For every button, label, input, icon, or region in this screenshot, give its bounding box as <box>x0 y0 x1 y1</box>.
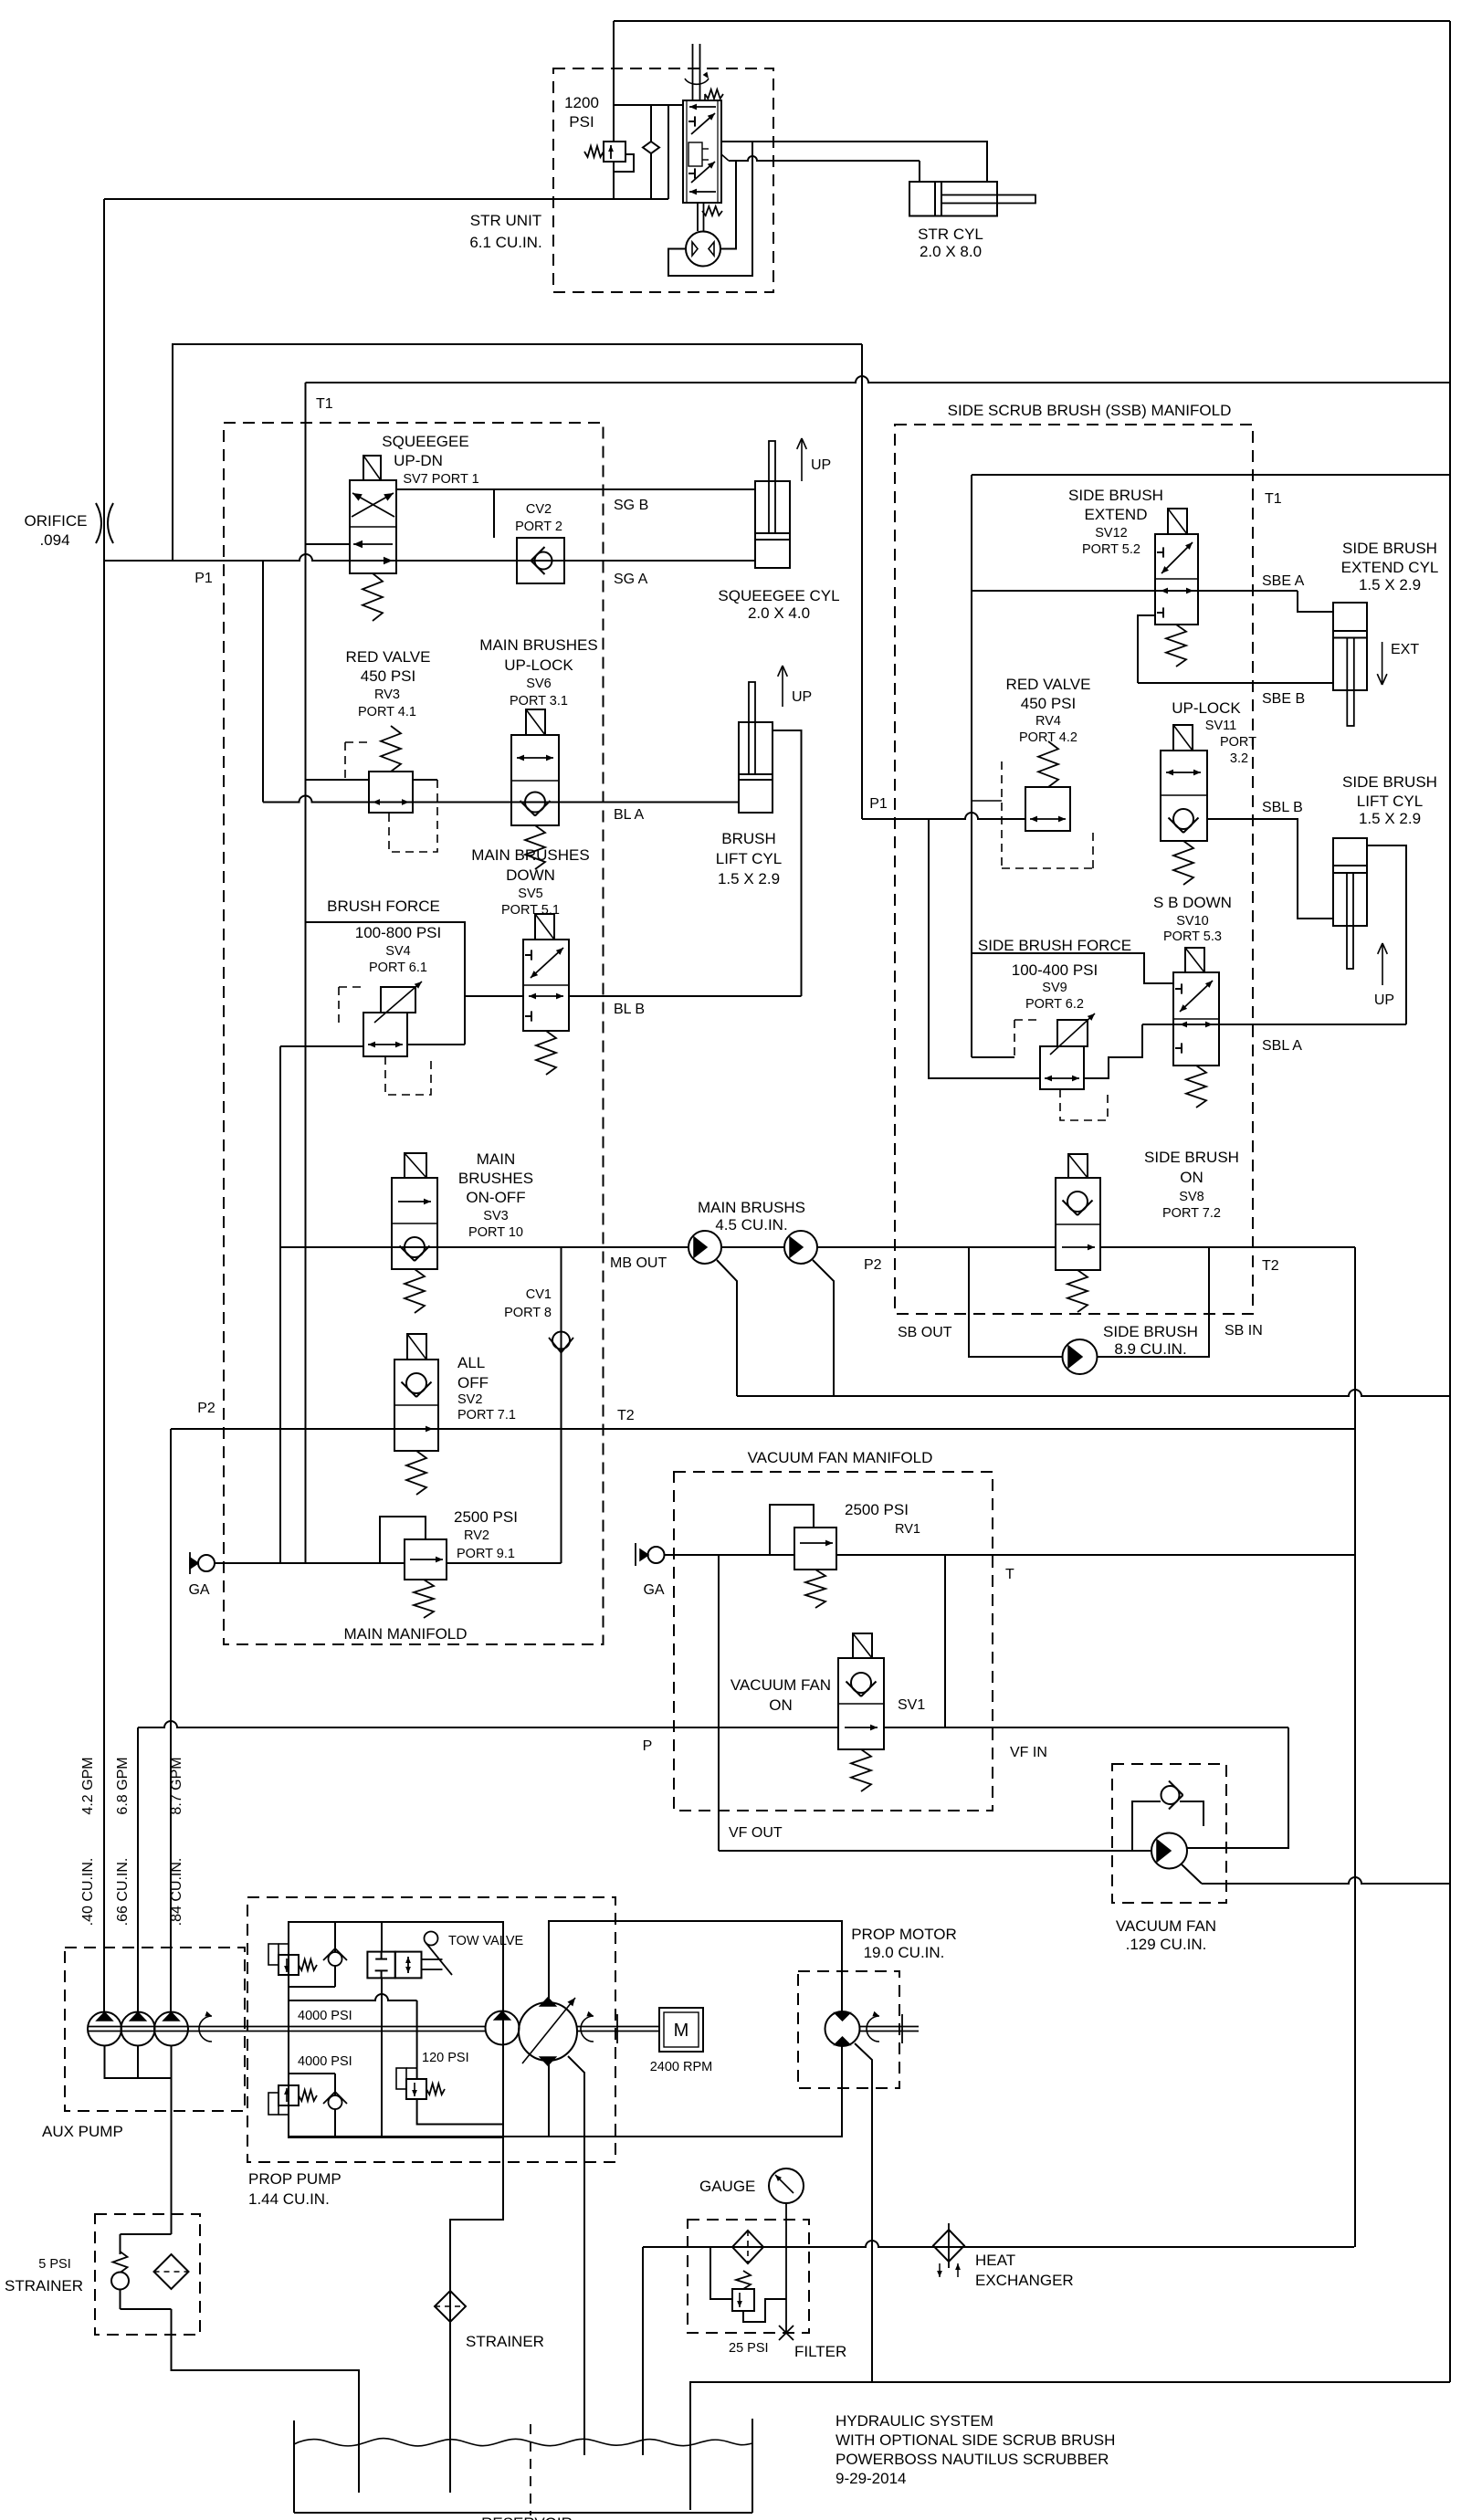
svg-text:PORT 5.2: PORT 5.2 <box>1082 542 1140 557</box>
svg-text:VF IN: VF IN <box>1010 1745 1047 1760</box>
side brush extend cylinder <box>1333 603 1367 690</box>
spring SV12 <box>1166 625 1186 667</box>
STR unit dashed enclosure <box>553 68 773 292</box>
svg-text:SBL A: SBL A <box>1262 1038 1302 1054</box>
side brush motor 8.9 cu.in. <box>1063 1339 1098 1374</box>
svg-text:PORT 9.1: PORT 9.1 <box>457 1547 515 1561</box>
wire STR line B to cylinder cap end <box>729 156 920 161</box>
wire tank return bottom to reservoir <box>690 2382 1450 2510</box>
svg-text:LIFT CYL: LIFT CYL <box>1357 793 1423 810</box>
proportional solenoid SV9 <box>1057 1020 1088 1046</box>
svg-text:SIDE BRUSH: SIDE BRUSH <box>1144 1149 1239 1166</box>
svg-text:ON-OFF: ON-OFF <box>466 1189 525 1206</box>
svg-text:EXTEND CYL: EXTEND CYL <box>1341 559 1439 576</box>
wire return line through filter and HX <box>643 2241 1354 2247</box>
svg-text:SV2: SV2 <box>457 1392 482 1407</box>
svg-text:SV10: SV10 <box>1176 914 1208 929</box>
wire SV7 B port to T1 <box>306 543 351 545</box>
svg-text:GAUGE: GAUGE <box>699 2178 755 2195</box>
svg-text:AUX PUMP: AUX PUMP <box>42 2123 123 2140</box>
vacuum fan dashed enclosure <box>1112 1764 1226 1903</box>
SSB manifold dashed enclosure <box>895 425 1253 1314</box>
charge pump <box>486 2011 520 2045</box>
gauge port GA main manifold <box>189 1552 191 1574</box>
solenoid SV2 <box>407 1334 426 1360</box>
svg-text:19.0 CU.IN.: 19.0 CU.IN. <box>864 1944 945 1961</box>
svg-text:POWERBOSS NAUTILUS SCRUBBER: POWERBOSS NAUTILUS SCRUBBER <box>836 2451 1109 2468</box>
check valve fan bypass <box>1161 1786 1180 1804</box>
svg-text:SIDE BRUSH: SIDE BRUSH <box>1068 487 1163 504</box>
relief 4000 psi bottom <box>279 2085 299 2105</box>
wire 120psi out <box>417 2099 503 2125</box>
spring RV2 <box>414 1580 434 1618</box>
svg-text:UP-DN: UP-DN <box>394 452 443 469</box>
svg-text:3.2: 3.2 <box>1230 751 1248 766</box>
svg-text:WITH OPTIONAL SIDE SCRUB BRUSH: WITH OPTIONAL SIDE SCRUB BRUSH <box>836 2431 1115 2449</box>
reservoir fluid level wavy line <box>294 2439 752 2446</box>
wire T2 return vertical right <box>1354 1247 1356 2247</box>
svg-text:RV1: RV1 <box>895 1522 920 1537</box>
wire gerotor to line B <box>720 161 736 249</box>
svg-text:PORT 6.1: PORT 6.1 <box>369 961 427 975</box>
wire pump suction <box>450 2121 503 2493</box>
svg-text:RED VALVE: RED VALVE <box>346 648 431 666</box>
plug X at gauge line <box>779 2326 794 2340</box>
wire P1 vertical to SSB <box>861 344 863 819</box>
valve SV10 side brush down <box>1173 972 1219 1066</box>
relief valve 1200 PSI <box>604 142 625 162</box>
pilot dash SV4 left <box>339 987 363 1024</box>
svg-text:SV5: SV5 <box>518 887 542 901</box>
svg-text:DOWN: DOWN <box>506 866 555 884</box>
wire RV3 top feed from T1 <box>306 779 370 781</box>
spring SV11 <box>1173 841 1193 885</box>
wire SBE A to extend cyl <box>1298 591 1333 612</box>
svg-text:EXCHANGER: EXCHANGER <box>975 2272 1074 2289</box>
squeegee cylinder 2.0x4.0 <box>755 481 790 568</box>
wire filter outlet to tank <box>642 2247 644 2455</box>
svg-text:SBE B: SBE B <box>1262 691 1305 707</box>
prop pump inner box <box>289 1922 503 2137</box>
wire MB OUT main line <box>280 1246 688 1248</box>
svg-text:PROP PUMP: PROP PUMP <box>248 2170 342 2188</box>
pilot dash RV3 left <box>345 742 369 779</box>
svg-text:EXT: EXT <box>1391 642 1419 657</box>
wire SV4 left port <box>280 1045 363 1047</box>
solenoid SV10 <box>1185 948 1204 972</box>
svg-text:CV2: CV2 <box>526 502 552 517</box>
reservoir center dashed line <box>530 2424 531 2515</box>
prop motor <box>825 2011 860 2046</box>
spring top-right of spool <box>705 89 723 99</box>
svg-text:GA: GA <box>188 1582 209 1598</box>
wire P2/T2 line <box>171 1428 1355 1430</box>
svg-text:P2: P2 <box>864 1257 882 1273</box>
wire SV4 return to T1 <box>306 922 466 1045</box>
aux pump dashed enclosure <box>65 1948 245 2111</box>
tow valve <box>367 1952 394 1979</box>
svg-text:120 PSI: 120 PSI <box>422 2051 469 2065</box>
svg-text:2.0 X 4.0: 2.0 X 4.0 <box>748 604 810 622</box>
wire SB motor feed <box>969 1247 1063 1357</box>
gauge <box>769 2168 804 2203</box>
valve SV7 squeegee up-dn <box>350 480 396 573</box>
svg-text:SV11: SV11 <box>1205 719 1236 733</box>
pilot dash SV9 left <box>1014 1020 1040 1057</box>
svg-text:VACUUM FAN MANIFOLD: VACUUM FAN MANIFOLD <box>748 1449 933 1466</box>
svg-text:8.7 GPM: 8.7 GPM <box>169 1757 184 1814</box>
aux pump 1 <box>88 2012 121 2046</box>
wire T line <box>664 1554 794 1556</box>
svg-text:450 PSI: 450 PSI <box>1021 695 1077 712</box>
wire aux pump suction bus <box>105 2045 172 2078</box>
svg-text:450 PSI: 450 PSI <box>361 667 416 685</box>
wire SBE B line <box>1138 682 1333 684</box>
svg-text:SIDE SCRUB BRUSH (SSB) MANIFOL: SIDE SCRUB BRUSH (SSB) MANIFOLD <box>948 402 1232 419</box>
gerotor metering unit <box>697 203 699 231</box>
svg-text:4000 PSI: 4000 PSI <box>298 2009 352 2023</box>
wire T1 header line <box>306 376 1452 383</box>
vacuum fan motor .129 cu.in. <box>1151 1833 1187 1869</box>
svg-text:M: M <box>674 2021 689 2041</box>
wire SBL B to lift cyl <box>1207 819 1333 919</box>
svg-text:T: T <box>1005 1567 1014 1582</box>
svg-text:PORT 7.2: PORT 7.2 <box>1162 1206 1221 1221</box>
svg-text:UP-LOCK: UP-LOCK <box>1172 699 1241 717</box>
svg-text:HYDRAULIC SYSTEM: HYDRAULIC SYSTEM <box>836 2412 993 2430</box>
red valve RV3 <box>369 772 413 813</box>
relief valve RV2 2500 PSI <box>405 1539 447 1580</box>
filter bypass relief 25 psi <box>736 2271 751 2289</box>
arrow EXT <box>1382 642 1383 685</box>
vacuum fan manifold dashed enclosure <box>674 1472 993 1811</box>
spring RV4 <box>1038 741 1058 787</box>
wire SV9 supply branch <box>929 819 1040 1078</box>
svg-text:UP: UP <box>1374 992 1394 1008</box>
svg-text:25 PSI: 25 PSI <box>729 2341 769 2356</box>
valve SV9 side brush force <box>1040 1046 1084 1089</box>
wire suction to reservoir <box>172 2309 360 2493</box>
svg-text:BRUSH: BRUSH <box>721 830 776 847</box>
wire riser to spool P port <box>668 105 683 199</box>
svg-text:MAIN: MAIN <box>477 1150 516 1168</box>
svg-text:1.44 CU.IN.: 1.44 CU.IN. <box>248 2190 330 2208</box>
svg-text:GA: GA <box>643 1582 664 1598</box>
main brush motor 2 <box>784 1231 817 1264</box>
aux pump 2 <box>121 2012 155 2046</box>
arrow UP brush lift <box>782 666 783 707</box>
svg-text:MB OUT: MB OUT <box>610 1255 667 1271</box>
svg-text:PORT 2: PORT 2 <box>515 520 562 534</box>
relief 4000 psi top <box>279 1955 299 1975</box>
svg-text:100-400 PSI: 100-400 PSI <box>1012 961 1098 979</box>
pilot dash SV4 below <box>385 1056 431 1095</box>
wire SG B line <box>396 488 755 490</box>
svg-text:9-29-2014: 9-29-2014 <box>836 2470 907 2487</box>
svg-text:SIDE BRUSH FORCE: SIDE BRUSH FORCE <box>978 937 1131 954</box>
svg-text:LIFT CYL: LIFT CYL <box>716 850 782 867</box>
check valve CV2 <box>517 538 564 583</box>
orifice .094 symbol <box>96 503 101 543</box>
svg-text:PORT 4.1: PORT 4.1 <box>358 705 416 719</box>
wire STR line A to cylinder rod end <box>721 142 987 182</box>
wire P1 into SSB <box>862 813 1025 819</box>
filter diamond <box>732 2231 763 2263</box>
check valve CV1 <box>561 1247 562 1563</box>
solenoid SV11 <box>1173 725 1193 751</box>
valve SV4 brush force <box>363 1013 407 1056</box>
svg-text:SV9: SV9 <box>1042 981 1067 995</box>
wire P line to SV1 <box>138 1721 838 1727</box>
svg-text:UP: UP <box>811 457 831 473</box>
svg-text:FILTER: FILTER <box>794 2343 846 2360</box>
pilot dash RV4 <box>1002 761 1093 868</box>
valve SV1 vacuum fan on <box>838 1658 884 1749</box>
svg-text:P1: P1 <box>869 796 888 812</box>
wire GA line to RV2 <box>215 1562 405 1564</box>
svg-text:SV1: SV1 <box>898 1697 925 1713</box>
wire right edge vertical main return <box>1449 21 1451 2382</box>
svg-text:SB IN: SB IN <box>1225 1323 1263 1339</box>
wire prop loop A <box>549 1921 842 2011</box>
svg-text:SV3: SV3 <box>483 1209 508 1223</box>
svg-text:ON: ON <box>769 1696 793 1714</box>
svg-text:SV6: SV6 <box>526 677 551 691</box>
svg-text:PSI: PSI <box>569 113 594 131</box>
svg-text:RV3: RV3 <box>374 688 400 702</box>
svg-text:SV4: SV4 <box>385 944 410 959</box>
wire pilot sense line <box>289 1994 417 2000</box>
svg-text:ON: ON <box>1180 1169 1203 1186</box>
svg-text:RV4: RV4 <box>1035 714 1061 729</box>
proportional solenoid SV4 <box>381 987 415 1013</box>
wire gauge stub <box>785 2203 787 2333</box>
strainer diamond main <box>435 2291 466 2322</box>
solenoid SV5 <box>535 914 554 940</box>
spring SV6 <box>525 825 545 869</box>
spring RV1 <box>805 1570 825 1608</box>
svg-text:STR CYL: STR CYL <box>918 226 983 243</box>
wire SSB inner box top <box>972 474 1451 476</box>
wire motor2 drain <box>813 1260 834 1396</box>
spring SV2 <box>406 1451 426 1495</box>
wire P1 feed line 377 <box>173 344 862 561</box>
svg-text:BRUSH FORCE: BRUSH FORCE <box>327 898 440 915</box>
valve SV5 main brushes down <box>523 940 569 1031</box>
valve SV12 side brush extend <box>1155 534 1198 625</box>
pump shaft right + motor M <box>577 2026 659 2028</box>
wire T1 return vertical <box>305 383 307 1563</box>
arrow UP squeegee <box>801 438 803 481</box>
strainer diamond 5psi <box>154 2254 189 2289</box>
wire 4.2 gpm line <box>103 561 105 2012</box>
check valve bottom branch <box>289 2073 335 2074</box>
heat exchanger <box>933 2230 964 2262</box>
svg-text:ALL: ALL <box>457 1354 485 1371</box>
wire fan drain to tank return <box>1182 1864 1202 1884</box>
svg-text:.094: .094 <box>39 531 69 549</box>
svg-text:1.5 X 2.9: 1.5 X 2.9 <box>718 870 780 887</box>
svg-text:SBE A: SBE A <box>1262 573 1305 589</box>
wire branch to CV2 pilot <box>493 489 495 538</box>
svg-text:2500 PSI: 2500 PSI <box>845 1501 909 1518</box>
svg-text:.129 CU.IN.: .129 CU.IN. <box>1126 1936 1207 1953</box>
svg-text:ORIFICE: ORIFICE <box>25 512 88 530</box>
svg-text:4000 PSI: 4000 PSI <box>298 2054 352 2069</box>
filter dashed enclosure <box>688 2220 809 2333</box>
spring bottom of spool <box>702 206 722 215</box>
wire BL B line <box>569 995 802 997</box>
tow valve lever <box>425 1932 438 1946</box>
spring SV5 <box>536 1031 556 1075</box>
svg-text:T1: T1 <box>316 396 333 412</box>
svg-text:PORT: PORT <box>1220 735 1256 750</box>
svg-text:SV7 PORT 1: SV7 PORT 1 <box>403 472 478 487</box>
wire BL A line <box>263 796 739 803</box>
wire VF IN drop to fan <box>1187 1727 1288 1848</box>
svg-text:T2: T2 <box>617 1408 635 1423</box>
wire motor1 drain <box>717 1260 737 1396</box>
wire outer loop top/right (STR supply to tank return) <box>614 20 1450 22</box>
svg-text:.40 CU.IN.: .40 CU.IN. <box>80 1858 96 1927</box>
pilot loop RV1 <box>770 1505 814 1555</box>
svg-text:BRUSHES: BRUSHES <box>458 1170 533 1187</box>
fan bypass check loop <box>1132 1801 1161 1851</box>
arrow UP side brush <box>1382 943 1383 985</box>
svg-text:SG A: SG A <box>614 572 648 587</box>
svg-text:4.5 CU.IN.: 4.5 CU.IN. <box>715 1216 787 1234</box>
wire case drain header to tank <box>737 1390 1450 1396</box>
svg-text:SIDE BRUSH: SIDE BRUSH <box>1103 1323 1198 1340</box>
svg-text:HEAT: HEAT <box>975 2252 1015 2269</box>
svg-text:SQUEEGEE CYL: SQUEEGEE CYL <box>718 587 839 604</box>
valve SV8 side brush on <box>1056 1178 1100 1270</box>
wire SV1 out to T riser <box>884 1727 1288 1728</box>
svg-text:.84 CU.IN.: .84 CU.IN. <box>169 1858 184 1927</box>
svg-text:5 PSI: 5 PSI <box>38 2257 70 2272</box>
main brush motor 1 <box>688 1231 721 1264</box>
wire P2 riser from aux pump <box>170 1429 172 2012</box>
svg-text:RED VALVE: RED VALVE <box>1006 676 1091 693</box>
wire SV4 to SV5 link <box>465 995 523 997</box>
5 psi strainer dashed enclosure <box>95 2214 200 2335</box>
wire 120psi branch <box>416 2000 418 2079</box>
wire VF OUT drop <box>718 1555 720 1851</box>
svg-text:MAIN BRUSHS: MAIN BRUSHS <box>698 1199 805 1216</box>
svg-text:PORT 10: PORT 10 <box>468 1225 523 1240</box>
valve SV3 main brushes on-off <box>392 1178 437 1269</box>
solenoid SV12 <box>1168 509 1187 534</box>
svg-text:1.5 X 2.9: 1.5 X 2.9 <box>1359 810 1421 827</box>
wire SV4 right port <box>407 1044 465 1045</box>
wire VF OUT line to fan <box>719 1850 1151 1852</box>
wire 6.8 gpm line <box>137 1727 139 2012</box>
svg-text:MAIN BRUSHES: MAIN BRUSHES <box>471 846 589 864</box>
svg-text:PORT 4.2: PORT 4.2 <box>1019 730 1077 745</box>
svg-text:6.8 GPM: 6.8 GPM <box>115 1757 131 1814</box>
gauge port GA vacuum <box>635 1543 636 1566</box>
wire SB motor return <box>1097 1247 1209 1357</box>
wire SSB inner left vertical <box>971 475 972 1057</box>
steering spool valve <box>683 100 721 203</box>
wire gerotor loop <box>668 142 752 276</box>
svg-text:T1: T1 <box>1265 491 1282 507</box>
brush lift cylinder 1.5x2.9 <box>739 722 773 813</box>
svg-text:SBL B: SBL B <box>1262 800 1303 815</box>
svg-text:1.5 X 2.9: 1.5 X 2.9 <box>1359 576 1421 593</box>
main manifold dashed enclosure <box>224 423 604 1644</box>
svg-text:VF OUT: VF OUT <box>729 1825 783 1841</box>
svg-text:VACUUM FAN: VACUUM FAN <box>1116 1917 1216 1935</box>
svg-text:PORT 3.1: PORT 3.1 <box>510 694 568 709</box>
solenoid SV8 <box>1068 1154 1088 1178</box>
svg-text:EXTEND: EXTEND <box>1085 506 1148 523</box>
solenoid SV7 <box>363 456 381 480</box>
svg-text:SB OUT: SB OUT <box>898 1325 952 1340</box>
relief 120 psi <box>406 2079 426 2099</box>
solenoid SV6 <box>526 709 545 735</box>
svg-text:P: P <box>643 1738 653 1754</box>
reservoir right wall <box>752 2419 753 2513</box>
svg-text:T2: T2 <box>1262 1258 1279 1274</box>
svg-text:PORT 5.1: PORT 5.1 <box>501 903 560 918</box>
pilot dash RV3 lower right <box>413 779 437 781</box>
svg-text:RV2: RV2 <box>464 1528 489 1543</box>
prop motor shaft <box>859 2026 919 2028</box>
check valve diamond in STR unit <box>650 105 652 142</box>
pump shaft line <box>88 2026 486 2028</box>
spring SV8 <box>1067 1270 1088 1312</box>
bypass loop 5psi <box>121 2233 172 2235</box>
svg-text:STRAINER: STRAINER <box>5 2277 83 2294</box>
svg-text:SG B: SG B <box>614 498 648 513</box>
prop pump dashed enclosure <box>247 1897 615 2162</box>
svg-text:SV8: SV8 <box>1179 1190 1203 1204</box>
svg-text:SIDE BRUSH: SIDE BRUSH <box>1342 540 1437 557</box>
svg-text:SQUEEGEE: SQUEEGEE <box>382 433 468 450</box>
wire P1 main line <box>104 554 755 561</box>
spring SV7 <box>363 573 383 621</box>
wire vertical from STR P-line to orifice and P1 <box>103 199 105 561</box>
svg-text:2.0 X 8.0: 2.0 X 8.0 <box>920 243 982 260</box>
STR CYL 2.0x8.0 cylinder <box>909 182 997 216</box>
wire side brush force box <box>972 953 1173 983</box>
svg-text:STR UNIT: STR UNIT <box>470 212 541 229</box>
red valve RV4 <box>1025 787 1070 831</box>
spring SV3 <box>405 1269 425 1313</box>
wire P supply line into STR unit <box>104 198 668 200</box>
svg-text:MAIN BRUSHES: MAIN BRUSHES <box>479 636 597 654</box>
svg-text:BL B: BL B <box>614 1002 645 1017</box>
shaft rotation arrow <box>199 2016 212 2042</box>
reservoir left wall <box>293 2420 295 2513</box>
wire tow valve stem to loop B <box>381 1978 383 2137</box>
side brush lift cylinder <box>1333 838 1367 926</box>
svg-text:SV12: SV12 <box>1095 526 1127 541</box>
svg-text:SIDE BRUSH: SIDE BRUSH <box>1342 773 1437 791</box>
svg-text:2500 PSI: 2500 PSI <box>454 1508 518 1526</box>
valve SV2 all off <box>394 1360 438 1451</box>
wire from outer top to relief RV-STR <box>613 21 615 142</box>
svg-text:8.9 CU.IN.: 8.9 CU.IN. <box>1114 1340 1186 1358</box>
wire RV2 out to CV1 drop <box>447 1562 562 1564</box>
solenoid SV3 <box>405 1153 426 1178</box>
svg-text:STRAINER: STRAINER <box>466 2333 544 2350</box>
svg-text:RESERVOIR: RESERVOIR <box>481 2515 573 2520</box>
spring RV3 <box>381 726 401 772</box>
wire SBL A line <box>1142 1024 1406 1025</box>
svg-text:4.2 GPM: 4.2 GPM <box>80 1757 96 1814</box>
